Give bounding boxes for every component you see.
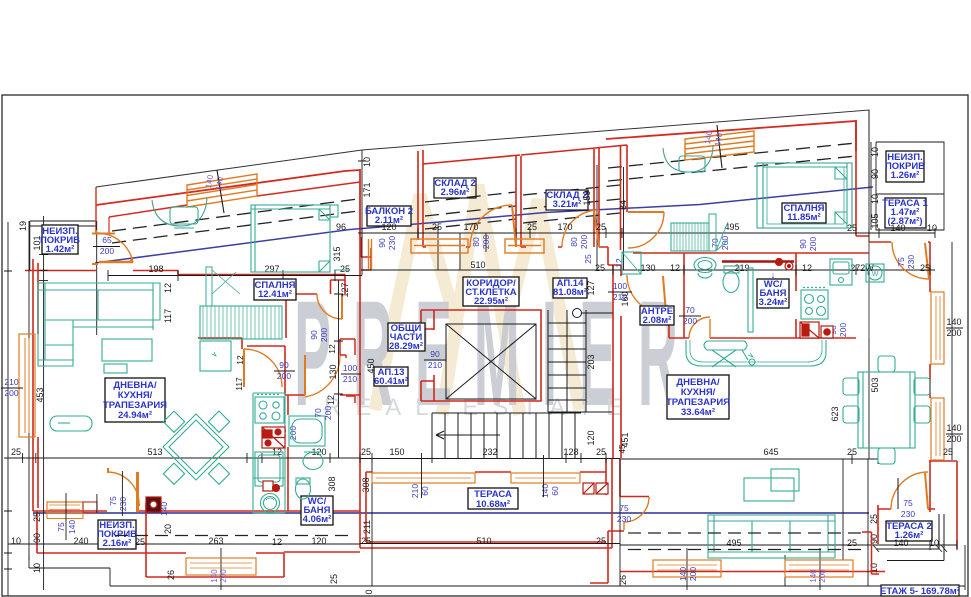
svg-text:84: 84 [618,200,628,210]
svg-text:10: 10 [870,147,880,157]
wardrobe АП14 hatched [671,214,728,251]
svg-text:75: 75 [896,257,906,267]
wall АП.13 bottom y511 [33,510,360,512]
wall kitchen/bath divider x290 [287,395,289,511]
dim vertical x965 [964,545,966,590]
dim line y459 bottom main [8,453,360,463]
sofa АП13 L-shape [38,283,160,366]
АП13 entry step + posts [340,339,355,403]
flower boxes terrace [583,483,594,494]
label ОБЩИ ЧАСТИ [388,323,425,351]
terrace2 black nested corners [873,514,947,561]
svg-text:140: 140 [540,484,550,498]
svg-text:203: 203 [586,354,596,369]
label ТЕРАСА 2 [886,521,932,541]
svg-text:25: 25 [583,254,593,264]
sink АП14 bath [694,258,716,273]
wall СКЛАД1 top sloped [423,155,520,164]
tv cabinet [102,339,152,361]
svg-text:140: 140 [678,567,688,581]
label СКЛАД 2a [434,178,476,198]
svg-text:315: 315 [332,246,342,261]
wall БАЛКОН2/СКЛАД x418-423 [418,150,423,247]
svg-text:W: W [872,271,879,278]
svg-text:90: 90 [869,534,879,544]
roof left edge vertical [95,187,97,233]
svg-text:75: 75 [619,503,629,513]
svg-text:200: 200 [838,323,848,337]
svg-text:90: 90 [377,238,387,248]
svg-text:510: 510 [470,260,485,270]
elevator X [446,324,536,399]
door terrace2 arc [891,472,928,509]
svg-text:200: 200 [319,328,329,342]
stairs lower flight treads [432,413,581,458]
boiler circles АП14 bath [776,259,783,266]
door АП13 top-left arc [96,233,133,262]
svg-text:26: 26 [166,570,176,580]
elevator red outline [434,310,541,401]
svg-text:10: 10 [870,194,880,204]
svg-text:101: 101 [32,235,42,250]
svg-text:100: 100 [343,363,357,373]
svg-text:33.64м²: 33.64м² [681,407,715,418]
red kitchen cabinets АП13 [146,259,833,513]
mirror strip bedroom1 [206,267,212,306]
svg-text:200: 200 [683,316,697,326]
svg-text:495: 495 [726,538,741,548]
elevator door notches [421,310,434,401]
svg-text:130: 130 [328,364,338,379]
svg-text:70: 70 [313,408,323,418]
red sink unit АП13 [263,481,273,491]
svg-text:623: 623 [830,406,840,421]
svg-text:25: 25 [595,263,605,273]
pillar box [83,502,97,513]
wall corridor right x613-621 [613,265,621,458]
wall СКЛАД bottom y247 [423,246,562,248]
wall top АП.13 right of door [133,271,178,275]
rotated vertical dims [18,147,962,595]
bathtub АП13 [289,416,325,446]
dashed terrace lines [115,533,866,560]
wall СКЛАД2 top sloped [521,145,627,155]
label АП14 [553,278,587,298]
svg-text:450: 450 [366,358,376,373]
terrace windows center 1 [372,473,475,483]
svg-text:12.41м²: 12.41м² [258,289,292,300]
wall common left x360 [359,236,361,458]
svg-text:4.06м²: 4.06м² [303,514,332,525]
label ДНЕВНА АП14 [667,375,729,419]
балкон left window vertical [369,239,372,269]
svg-text:20: 20 [163,524,173,534]
door СКЛАД2 arc [562,210,599,247]
wardrobe АП13 hatched [200,306,282,339]
dim vertical x29 [28,221,30,560]
svg-text:12: 12 [235,355,245,365]
svg-text:140: 140 [67,520,77,534]
roof edge black left [96,110,869,187]
svg-text:230: 230 [617,514,631,524]
svg-text:140: 140 [210,569,219,583]
svg-text:28.29м²: 28.29м² [389,341,423,352]
svg-text:24.94м²: 24.94м² [118,410,152,421]
svg-text:117: 117 [234,377,244,391]
wall terrace top y472 [366,471,606,473]
svg-text:210: 210 [343,374,357,384]
svg-text:10: 10 [11,536,21,546]
wall bath bottom y338 [669,337,856,339]
wall bottom band red y571 [620,571,885,573]
svg-text:25: 25 [920,263,930,273]
wall terrace2 top stubs [878,461,957,509]
kitchen АП13 counter [253,393,285,513]
wall center terrace right x606-612 [606,459,612,548]
blue terrace line [33,512,869,514]
svg-text:198: 198 [148,264,163,274]
coffee tables АП14 [744,478,794,501]
svg-text:200: 200 [219,569,228,583]
wall СПАЛНЯ1 bottom y338-346 [198,338,285,395]
svg-text:25: 25 [135,537,145,547]
door bath АП13 arc [305,355,340,397]
svg-text:90: 90 [279,360,289,370]
svg-text:12: 12 [326,395,336,405]
label WC БАНЯ АП14 [757,279,789,308]
dim line top АП13 y275 [108,270,362,281]
svg-text:25: 25 [11,447,21,457]
stove АП14 [801,290,828,319]
wall СКЛАД2 right x594-599 [594,148,599,247]
svg-text:90: 90 [32,533,42,543]
svg-text:70: 70 [685,305,695,315]
skylight left roof [187,174,257,207]
wall bath top y261.5 [722,260,794,263]
svg-text:232: 232 [482,447,497,457]
svg-text:200: 200 [946,328,961,338]
radiator bottom strip 2 [653,560,721,577]
svg-text:210: 210 [428,360,442,370]
dim verticals center top [438,165,624,270]
dim line bottom y586 [110,585,965,587]
dim line y233 center/right [362,228,935,238]
svg-text:75: 75 [903,498,913,508]
wall terrace2 left x878 [878,461,957,549]
blue height line [95,187,873,263]
door СПАЛНЯ АП14 arc [628,212,664,248]
svg-text:308: 308 [361,477,371,492]
svg-text:↓: ↓ [771,270,776,280]
svg-text:130: 130 [640,263,655,273]
kitchen sink АП14 [830,259,852,285]
dim line y544 left [8,543,360,545]
svg-text:127: 127 [586,280,596,295]
балкон2 window y239 [411,239,468,253]
bed АП14 [763,163,852,228]
wall right x869 below terrace1 [868,236,870,338]
chimney right [663,146,713,172]
dim line y545 right [620,540,957,550]
dim vertical x362 БАЛКОН [358,150,366,265]
svg-text:25: 25 [943,447,953,457]
door center terrace arc [624,497,649,530]
svg-text:25: 25 [847,447,857,457]
door bedroom1-corridor arc [317,294,342,319]
wall center terrace left x360-366 [284,458,612,552]
svg-text:1.42м²: 1.42м² [46,244,75,255]
svg-text:230: 230 [906,255,916,269]
door terrace1 arc [892,242,929,279]
wall bath top y395 [285,394,360,396]
svg-text:12: 12 [327,344,337,354]
wardrobe АНТРЕ [622,252,641,274]
svg-text:75: 75 [108,496,118,506]
dashed roof lines left [112,143,856,243]
svg-text:210: 210 [4,377,18,387]
svg-text:240: 240 [73,536,88,546]
label АП13 [374,367,408,386]
svg-text:263: 263 [208,536,223,546]
svg-text:645: 645 [763,447,778,457]
skylight tick marks [217,125,722,213]
wall bedroom1 top edge [178,274,345,276]
svg-text:200: 200 [481,235,491,249]
svg-text:170: 170 [557,222,572,232]
label АНТРЕ [640,306,674,325]
svg-text:200: 200 [277,371,291,381]
svg-text:12: 12 [670,263,680,273]
ironing board АП14 [704,341,747,350]
svg-text:200: 200 [323,406,333,420]
counter АП14 [686,340,826,366]
svg-text:25: 25 [361,536,371,546]
dim line y459 right [620,454,878,464]
label ЕТАЖ 5 [881,585,959,596]
svg-text:453: 453 [35,387,45,402]
window right wall 1 [931,292,944,364]
black outline НЕИЗП box area [30,221,96,270]
label НЕИЗП ПОКРИВ 2.16 [98,520,136,549]
svg-text:150: 150 [389,447,404,457]
shower screen АП14 [748,268,753,332]
wall right upper x856 [856,121,869,236]
wall АП14 lower left x620 [620,459,649,497]
svg-text:25: 25 [432,222,442,232]
svg-text:65: 65 [102,235,112,245]
bed АП13 [251,205,330,272]
red cabinets АП14 [800,322,819,338]
svg-text:25: 25 [340,264,350,274]
stove АП13 [255,397,284,423]
svg-text:90: 90 [430,349,440,359]
svg-text:510: 510 [476,536,491,546]
wall АП14 bedroom bottom y247 [599,247,869,265]
svg-text:2.08м²: 2.08м² [643,315,672,326]
svg-text:25: 25 [596,447,606,457]
elevator inner box [446,324,536,399]
svg-text:90: 90 [798,239,808,249]
wall corridor top y294 [286,280,345,294]
svg-text:10: 10 [362,157,372,167]
toilet АП14 [723,272,739,293]
wall bedroom1 right x345 [344,275,346,295]
svg-text:219: 219 [734,263,749,273]
svg-text:12: 12 [163,283,173,293]
boxes НЕИЗП/ТЕРАСА1 right [871,142,944,230]
chairs АП13 [163,411,184,432]
wall СКЛАД1 right x516-521 [516,156,521,247]
svg-text:10: 10 [869,563,879,573]
roof red inner left [109,182,360,217]
stairs upper flight treads [548,310,612,412]
svg-text:80: 80 [471,237,481,247]
svg-text:25: 25 [32,512,42,522]
dim vertical x338 [33,280,343,458]
svg-text:200: 200 [4,388,18,398]
svg-text:230: 230 [901,509,915,519]
svg-text:25: 25 [596,222,606,232]
door СПАЛНЯ1-hall arc [244,349,282,387]
svg-text:128: 128 [563,447,578,457]
dim line y270 central [362,265,935,275]
dim vertical x868 bottom [221,338,869,590]
door bottom left arc [108,472,139,505]
svg-text:200: 200 [100,246,114,256]
door bath АП14 arc [689,317,710,338]
label БАЛКОН 2 [367,206,411,226]
dim vertical x372 x432 bottom [372,458,620,586]
sofa АП14 bottom [708,515,835,558]
svg-text:513: 513 [147,447,162,457]
svg-text:140: 140 [946,423,961,433]
dim line y544 center [360,543,620,545]
svg-text:170: 170 [463,222,478,232]
radiator bottom strip 3 [785,560,853,577]
svg-text:19: 19 [18,221,28,231]
dark box junction left bottom [146,497,161,512]
svg-text:171: 171 [362,182,372,197]
svg-text:REAL ESTATE: REAL ESTATE [324,394,636,421]
svg-text:117: 117 [163,309,173,323]
coffee table [50,416,92,431]
shelf АП13 [200,341,231,371]
svg-text:210: 210 [613,292,627,302]
svg-text:80: 80 [569,237,579,247]
label ТЕРАСА 1 [885,198,926,228]
wall right outer x930 [929,242,931,512]
svg-text:230: 230 [118,497,128,511]
wall bath/kitchen divider x796 [795,253,797,338]
radiator bench left bottom [47,502,83,513]
svg-text:26: 26 [618,575,628,585]
wall балкон2 left step [361,237,371,270]
svg-text:120: 120 [381,222,396,232]
svg-text:25: 25 [869,514,879,524]
chairs АП14 [843,378,859,395]
dining table АП13 rotated [163,414,229,480]
svg-text:25: 25 [527,222,537,232]
wall top АП.13 horizontal [25,270,96,272]
svg-text:210: 210 [410,484,420,498]
svg-text:90: 90 [870,169,880,179]
svg-text:308: 308 [327,476,337,491]
washbasin АП13 [303,453,323,470]
toilet АП13 [296,479,311,499]
svg-text:3.21м²: 3.21м² [553,199,582,210]
svg-text:0: 0 [364,589,374,594]
label НЕИЗП ПОКРИВ 1.26 [886,151,924,182]
roof red line outer left [96,170,360,236]
svg-text:70: 70 [710,238,720,248]
wall terrace1 bottom y242 [869,241,930,243]
label СКЛАД 2b [546,190,588,210]
svg-text:120: 120 [586,430,596,445]
svg-text:45: 45 [618,444,627,453]
svg-text:96: 96 [336,222,346,232]
label СПАЛНЯ 11.85 [782,203,826,223]
svg-text:120: 120 [311,536,326,546]
svg-text:200: 200 [688,567,698,581]
label WC БАНЯ АП13 [301,496,333,525]
dining table АП14 [858,372,915,448]
label ДНЕВНА АП13 [105,378,165,422]
window sill top-left [92,234,115,265]
svg-text:100: 100 [613,281,627,291]
wall АНТРЕ bottom portion [668,315,670,338]
door leaf top-left [99,261,133,264]
svg-text:200: 200 [579,235,589,249]
svg-text:60.41м²: 60.41м² [374,376,408,387]
svg-text:2.16м²: 2.16м² [103,538,132,549]
svg-text:140: 140 [946,317,961,327]
svg-text:11.85м²: 11.85м² [787,212,820,223]
svg-text:ЕТАЖ 5- 169.78м²: ЕТАЖ 5- 169.78м² [880,586,960,597]
svg-text:81.08м²: 81.08м² [553,287,587,298]
svg-text:2.96м²: 2.96м² [441,187,470,198]
wall terrace lower stubs [590,531,624,583]
svg-text:211: 211 [362,520,372,534]
svg-text:140: 140 [890,223,905,233]
roof red line right section [606,121,856,151]
label СПАЛНЯ 12.41 [254,279,296,300]
svg-text:22.95м²: 22.95м² [474,296,508,307]
nightstand АП13 [330,205,338,217]
svg-text:60: 60 [550,486,560,496]
terrace windows center 2 [511,473,580,483]
svg-text:25: 25 [361,447,371,457]
svg-text:140: 140 [809,569,818,583]
dim vertical x96.7 [96,221,98,335]
wall СПАЛНЯ2 left x620-627 [621,145,628,250]
blue door/window fraction dims [1,235,918,581]
window right wall 2 [931,398,944,460]
svg-text:495: 495 [724,222,739,232]
stairs arrow [436,431,500,439]
svg-text:140: 140 [893,538,908,548]
svg-text:3.24м²: 3.24м² [759,297,788,308]
svg-text:12: 12 [272,537,282,547]
dim vertical x869 right [868,110,870,242]
red bits left of terrace2 [862,532,879,574]
svg-text:230: 230 [387,236,397,250]
wall bedroom1 east x286 [285,294,287,338]
dim vertical x43.6 [39,216,48,590]
svg-text:25: 25 [847,538,857,548]
wardrobe АП14 bedroom [757,163,763,228]
svg-text:25: 25 [596,536,606,546]
dim vertical left x8 [4,222,12,596]
